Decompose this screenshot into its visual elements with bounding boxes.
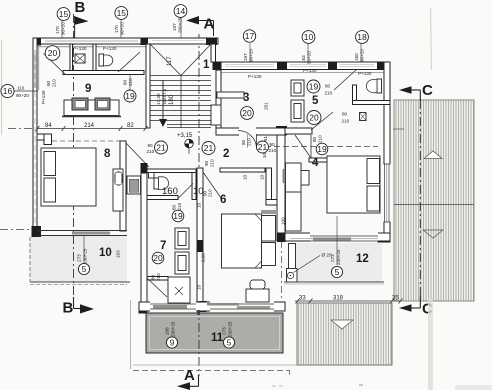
wall: small nook below room5 door — [309, 158, 331, 162]
svg-text:C: C — [422, 82, 433, 99]
furniture: wardrobe room5 b — [291, 100, 304, 122]
marker circle 20 room5 — [307, 111, 321, 125]
svg-text:117: 117 — [167, 56, 173, 66]
marker circle 10 — [302, 31, 315, 44]
svg-text:P+130: P+130 — [103, 46, 117, 51]
door arc room3 — [238, 131, 257, 149]
window sill line top-left — [37, 46, 146, 48]
terrace 11 floor — [146, 313, 283, 353]
wall: shower room top — [147, 277, 168, 281]
shaft: mid bath right — [192, 173, 196, 200]
wall: room3 bottom — [216, 128, 286, 135]
svg-text:15: 15 — [117, 8, 127, 18]
furniture: washbasin mid — [127, 176, 141, 194]
wall: bath TL partition 2 — [93, 44, 96, 73]
sliding door room7 bottom — [150, 302, 196, 312]
wall: bath TR bottom — [353, 101, 391, 105]
svg-text:106: 106 — [165, 327, 170, 335]
svg-text:90×20: 90×20 — [249, 49, 254, 62]
svg-text:273: 273 — [77, 254, 82, 262]
svg-text:230+25: 230+25 — [336, 249, 341, 265]
shaft fill on 6|4 wall — [283, 169, 290, 183]
svg-text:21: 21 — [258, 142, 268, 152]
marker circle 14 — [174, 5, 187, 18]
svg-text:163: 163 — [116, 250, 121, 258]
svg-text:80: 80 — [123, 79, 128, 85]
svg-text:5: 5 — [312, 95, 319, 107]
dim leader terrace12 — [336, 216, 338, 265]
door swing closet TL — [118, 52, 140, 72]
wall axis dash left — [34, 55, 36, 225]
wall: mid bath top — [147, 169, 196, 173]
column with circle terrace 12 — [287, 269, 298, 283]
furniture: toilet TR — [377, 79, 382, 93]
pillows bed room6 — [262, 216, 276, 242]
door swing room5 — [311, 112, 333, 130]
svg-text:210: 210 — [208, 189, 213, 197]
dash-dot wall axis below — [281, 241, 283, 299]
svg-text:2,65: 2,65 — [201, 253, 206, 262]
svg-text:20: 20 — [48, 48, 58, 58]
svg-text:90+20: 90+20 — [120, 22, 125, 35]
lot boundary dashed bottom — [133, 364, 297, 366]
svg-text:20: 20 — [242, 108, 252, 118]
furniture: toilet mid — [154, 178, 159, 189]
furniture: desk room8 — [113, 169, 123, 211]
svg-text:90: 90 — [270, 142, 276, 147]
door dashes rooms 9/8 — [52, 140, 120, 142]
svg-text:170: 170 — [55, 26, 60, 34]
svg-text:P+130: P+130 — [303, 68, 317, 73]
svg-text:B: B — [63, 300, 74, 317]
door swing mid bath — [178, 184, 193, 199]
wall: mid bath bottom — [147, 196, 178, 200]
svg-text:14: 14 — [176, 6, 186, 16]
svg-text:84: 84 — [45, 123, 52, 129]
column right wall bottom — [378, 233, 391, 243]
marker circle 19 kitchen — [124, 90, 136, 102]
furniture: wardrobe room5 a — [291, 80, 304, 96]
svg-text:210: 210 — [128, 78, 133, 86]
svg-text:10: 10 — [197, 202, 202, 208]
window sill line left — [38, 47, 40, 90]
terrace 10 floor — [30, 236, 127, 282]
stair direction arrow — [162, 80, 164, 120]
furniture: kitchen table — [64, 100, 119, 116]
roof chevron down — [423, 230, 443, 238]
wall: top-right outer wall — [213, 62, 390, 70]
svg-text:210: 210 — [210, 159, 215, 167]
svg-text:10: 10 — [260, 174, 265, 180]
svg-text:160: 160 — [354, 53, 359, 61]
scan crease top right — [431, 8, 432, 70]
furniture: bed room8 — [41, 148, 96, 206]
dimension chain y128 — [37, 128, 146, 130]
svg-text:1: 1 — [203, 59, 210, 71]
hall dashed line — [265, 146, 378, 148]
svg-text:210: 210 — [52, 79, 57, 87]
svg-text:273: 273 — [222, 327, 227, 335]
column left wall bottom — [32, 226, 42, 237]
furniture: sink TR — [360, 113, 367, 121]
svg-text:P+130: P+130 — [358, 71, 372, 76]
wall: terrace10 window wall — [37, 230, 127, 232]
furniture: bed room4 — [327, 156, 380, 213]
wall: bottom of rooms 7/6 — [139, 302, 285, 311]
column stair top-right — [206, 38, 217, 45]
svg-text:100: 100 — [281, 217, 286, 225]
svg-text:197: 197 — [172, 23, 177, 31]
hatched terrace band right — [394, 100, 474, 301]
wall: stub rooms 9/8 — [37, 134, 52, 140]
wall: right outer wall — [384, 62, 390, 242]
svg-text:B: B — [75, 0, 86, 16]
marker circle 21 hall east — [257, 141, 269, 153]
svg-text:90×20: 90×20 — [61, 22, 66, 35]
svg-text:10: 10 — [197, 284, 202, 290]
wall: stairwell right — [211, 44, 216, 62]
scan smudge right — [428, 298, 433, 390]
furniture: cabinet room7 a — [175, 228, 189, 249]
column on mid-left wall — [141, 163, 148, 174]
wall: bottom of rooms 4/12 — [285, 233, 390, 241]
wall: top-left outer wall — [33, 38, 218, 44]
svg-text:80: 80 — [312, 136, 317, 142]
svg-text:82: 82 — [127, 123, 134, 129]
marker circle 18 — [356, 31, 369, 44]
door swing room8 — [126, 143, 149, 167]
kitchen chair 2 — [95, 98, 110, 110]
wall: rooms 6|4/12 vertical — [277, 128, 285, 241]
wall: room8 right — [120, 141, 126, 231]
furniture: chair room6 — [250, 280, 265, 289]
svg-text:110: 110 — [17, 86, 25, 91]
column bottom wall mid — [199, 301, 207, 312]
furniture: bed room6 — [222, 214, 262, 268]
door swing bath TR — [334, 70, 356, 90]
svg-text:8: 8 — [104, 148, 111, 160]
furniture: desk room6 — [246, 289, 269, 302]
svg-text:15: 15 — [59, 9, 69, 19]
wall: rooms 7/6 — [197, 168, 203, 303]
svg-text:35: 35 — [392, 296, 399, 302]
wall: room6 NE horizontal — [266, 200, 278, 206]
door swing room6 — [203, 172, 221, 198]
svg-text:34: 34 — [262, 152, 267, 158]
svg-text:160: 160 — [162, 186, 178, 197]
column top-right corner — [377, 62, 388, 70]
wall: left outer wall — [33, 38, 37, 232]
svg-text:210: 210 — [325, 91, 333, 96]
marker circle 20 bath TL — [45, 46, 60, 61]
svg-text:318: 318 — [333, 296, 344, 302]
svg-text:5: 5 — [227, 338, 232, 348]
svg-text:210: 210 — [156, 273, 161, 281]
svg-text:10: 10 — [99, 247, 112, 259]
sliding door room6 bottom — [210, 302, 274, 312]
svg-text:230+25: 230+25 — [83, 248, 88, 264]
wall: bath TR partition — [353, 85, 357, 104]
svg-text:180: 180 — [169, 94, 175, 105]
hatch divider line — [394, 204, 474, 206]
furniture: closet room3 — [211, 105, 221, 125]
svg-text:9: 9 — [170, 338, 175, 348]
section mark A top — [186, 16, 199, 25]
svg-text:19: 19 — [125, 91, 135, 101]
svg-text:19: 19 — [317, 144, 327, 154]
svg-text:20: 20 — [153, 253, 163, 263]
wall: room5 bottom — [285, 128, 312, 134]
marker circle 19 room4 — [316, 143, 328, 155]
svg-text:5: 5 — [82, 264, 87, 274]
short dash-dot extension left y128 — [8, 128, 33, 130]
wall: room6 NE vertical — [266, 168, 272, 205]
shaft marker mid bath — [149, 173, 155, 179]
svg-text:3: 3 — [243, 92, 249, 104]
track line to terrace 12 — [290, 238, 378, 240]
door gap room3 — [239, 127, 256, 136]
marker circle 21 hall left — [155, 141, 168, 154]
door swing bath TL — [44, 54, 66, 75]
svg-text:210: 210 — [147, 149, 155, 154]
svg-text:210: 210 — [247, 138, 252, 146]
section line A dash-dot — [198, 34, 200, 376]
marker circle 20 room3 — [241, 107, 254, 120]
svg-text:80: 80 — [46, 80, 51, 86]
furniture: sink TL — [75, 54, 85, 63]
svg-text:P+130: P+130 — [248, 74, 262, 79]
column stair/room3 corner — [213, 62, 222, 71]
section line C dash-dot — [419, 100, 421, 300]
column rooms7/6 wall — [197, 240, 204, 252]
svg-text:250×25: 250×25 — [178, 17, 183, 33]
svg-text:A: A — [184, 367, 195, 384]
furniture: shelf room3 top — [217, 92, 244, 98]
door swing room4 — [295, 135, 311, 158]
svg-text:4: 4 — [312, 157, 319, 169]
window right wall — [383, 164, 390, 222]
svg-text:80: 80 — [172, 204, 177, 210]
svg-text:214: 214 — [84, 123, 95, 129]
svg-text:210: 210 — [177, 202, 182, 210]
svg-text:90×20: 90×20 — [307, 51, 312, 64]
wall: room3 left — [216, 70, 221, 135]
door swing shower — [147, 278, 167, 297]
window sill line top-right — [221, 71, 388, 73]
column top of 6|4 wall — [276, 126, 287, 135]
svg-text:80: 80 — [241, 139, 246, 145]
svg-text:33: 33 — [299, 296, 306, 302]
svg-text:21: 21 — [156, 143, 166, 153]
dimension chain y301 — [295, 300, 401, 302]
column top-left corner — [33, 38, 42, 46]
column mid top wall — [141, 38, 149, 46]
svg-text:10: 10 — [243, 174, 248, 180]
svg-text:19: 19 — [173, 211, 183, 221]
svg-text:230+25: 230+25 — [171, 321, 176, 337]
marker circle 15 left — [57, 8, 70, 21]
marker circle 16 — [1, 84, 14, 97]
furniture: toilet TL — [99, 54, 104, 66]
svg-text:10: 10 — [304, 32, 314, 42]
terrace 12 floor — [296, 243, 382, 282]
svg-text:210: 210 — [342, 119, 350, 124]
svg-text:18: 18 — [357, 32, 367, 42]
svg-text:273: 273 — [330, 254, 335, 262]
svg-text:90: 90 — [204, 160, 209, 166]
marker circle 15 second — [115, 7, 128, 20]
marker circle 19 room7 — [172, 210, 184, 222]
svg-text:8: 8 — [197, 310, 201, 317]
svg-text:197: 197 — [243, 53, 248, 61]
section line B dash-dot — [73, 14, 75, 300]
svg-text:+3,15: +3,15 — [177, 133, 193, 139]
svg-text:90+20: 90+20 — [16, 93, 29, 98]
kitchen chair 1 — [72, 98, 88, 110]
marker circle 17 — [243, 30, 255, 42]
shower unit room4 — [286, 163, 302, 192]
roof chevron down bottom — [331, 320, 353, 329]
svg-text:90×20: 90×20 — [360, 49, 365, 62]
svg-text:19: 19 — [309, 82, 319, 92]
wall: bath TL partition 1 — [70, 44, 73, 72]
svg-text:90: 90 — [148, 143, 154, 148]
column rooms3/5 top — [277, 62, 287, 70]
svg-text:6: 6 — [220, 194, 226, 206]
ledge room6 NE — [261, 210, 278, 214]
roof chevron up — [424, 151, 442, 159]
svg-text:A: A — [204, 16, 215, 33]
svg-text:16: 16 — [3, 86, 13, 96]
furniture: cabinet room7 b — [175, 252, 189, 274]
svg-text:9: 9 — [85, 83, 91, 95]
svg-text:5: 5 — [335, 267, 340, 277]
svg-text:17: 17 — [245, 31, 255, 41]
svg-text:210: 210 — [269, 148, 277, 153]
wall: mid-left (room7 left) — [141, 165, 147, 313]
stairs — [150, 44, 211, 128]
section mark C top — [399, 86, 412, 93]
column mid top-right wall — [328, 62, 337, 71]
page edge artifact left — [1, 40, 3, 135]
tick at hatch edge right — [393, 128, 404, 130]
marker circle 20 room7 — [152, 252, 164, 264]
svg-text:61: 61 — [263, 135, 268, 141]
section mark C bottom — [399, 304, 412, 311]
dim leader terrace10 — [83, 236, 85, 262]
furniture: shower room7 — [168, 277, 190, 303]
svg-text:281: 281 — [264, 102, 269, 110]
svg-text:80: 80 — [151, 274, 156, 280]
marker circle 21 hall right — [202, 142, 215, 155]
column bottom-left corner — [139, 303, 148, 314]
wall: room6 top — [220, 168, 265, 172]
svg-text:163: 163 — [301, 55, 306, 63]
wall: stairwell left — [146, 44, 150, 128]
marker circle 19 room5 — [307, 80, 320, 93]
column bottom of 6|4 wall — [277, 233, 286, 243]
svg-text:230+25: 230+25 — [228, 321, 233, 337]
svg-text:16x17,5: 16x17,5 — [162, 88, 167, 105]
svg-text:170: 170 — [114, 25, 119, 33]
svg-text:210: 210 — [318, 135, 323, 143]
wall: bath TL bottom — [63, 71, 144, 75]
svg-text:7: 7 — [160, 240, 166, 252]
svg-text:P+130: P+130 — [73, 46, 87, 51]
svg-text:80: 80 — [342, 112, 348, 117]
parapet strip terrace 12 — [289, 244, 296, 270]
short dash-dot extension left y229 — [0, 229, 30, 231]
sliding door rooms4/12 — [310, 233, 378, 242]
svg-text:80: 80 — [325, 84, 331, 89]
svg-text:21: 21 — [204, 143, 214, 153]
hatched terrace band bottom — [297, 303, 392, 365]
svg-text:12: 12 — [356, 253, 369, 265]
svg-text:P+130: P+130 — [41, 90, 46, 104]
svg-text:17,30: 17,30 — [156, 93, 161, 105]
svg-text:20: 20 — [309, 113, 319, 123]
svg-text:2: 2 — [223, 148, 229, 160]
